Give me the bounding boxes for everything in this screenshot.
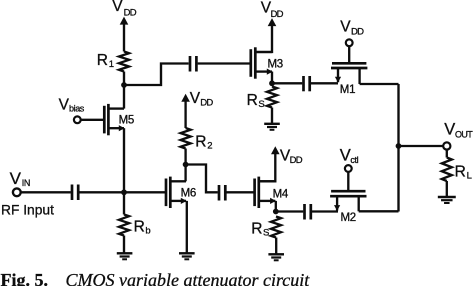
wire input node to M6 gate	[124, 191, 166, 193]
svg-text:V: V	[340, 18, 351, 35]
svg-text:DD: DD	[271, 9, 284, 20]
svg-text:R: R	[455, 164, 466, 181]
wire R2 to node D	[184, 149, 186, 165]
svg-text:M4: M4	[273, 188, 289, 200]
label Vbias	[59, 96, 85, 113]
resistor R1	[119, 52, 129, 72]
wire node B to capacitor C4	[272, 82, 302, 84]
svg-text:V: V	[190, 90, 201, 107]
wire node A to capacitor C2	[124, 64, 189, 86]
svg-text:M3: M3	[268, 58, 283, 70]
svg-text:R: R	[134, 218, 145, 235]
power VDD arrow (above M3)	[268, 18, 277, 26]
wire M5 gate to Vbias	[81, 119, 104, 121]
label R2	[195, 133, 212, 151]
wire M6 source to ground	[186, 201, 188, 253]
capacitor C1	[72, 185, 78, 201]
power VDD label (above M4)	[280, 148, 303, 167]
wire M5 drain to node A	[123, 85, 125, 109]
power VDD label (above M1)	[340, 18, 364, 37]
resistor RS (lower)	[271, 217, 281, 238]
svg-text:Fig. 5.: Fig. 5.	[1, 270, 49, 286]
svg-text:b: b	[145, 225, 150, 236]
svg-text:CMOS variable attenuator circu: CMOS variable attenuator circuit	[66, 270, 311, 286]
label RS (upper)	[247, 92, 265, 110]
ground (upper RS)	[264, 123, 280, 125]
svg-text:V: V	[59, 96, 70, 113]
transistor M3	[251, 47, 273, 78]
wire Rb to ground	[123, 236, 125, 254]
capacitor C2	[190, 56, 196, 72]
transistor M4	[255, 177, 276, 208]
input node junction	[121, 189, 127, 195]
wire input node to Rb	[123, 192, 125, 214]
wire R1 to node A	[123, 72, 125, 86]
svg-text:R: R	[97, 52, 108, 69]
ground (lower RS)	[268, 253, 284, 255]
svg-text:M5: M5	[119, 114, 134, 126]
transistor M6	[166, 177, 187, 208]
transistor M2	[330, 191, 366, 211]
resistor RS (upper)	[267, 87, 277, 108]
label R1	[97, 52, 114, 70]
wire output bus	[397, 84, 399, 212]
svg-text:R: R	[195, 133, 206, 150]
transistor M5	[104, 104, 124, 135]
capacitor C4	[304, 76, 310, 91]
ground (Rb)	[117, 252, 133, 254]
wire M3 drain to VDD	[255, 25, 272, 52]
ground (RL)	[438, 196, 456, 198]
wire RL to ground	[446, 181, 448, 197]
wire C4 to M1 source	[311, 82, 338, 84]
ground (M6)	[179, 252, 195, 254]
resistor RL	[442, 158, 452, 182]
capacitor C5	[305, 204, 311, 220]
wire C1 to input node	[79, 191, 124, 193]
wire C2 to M3 gate	[198, 62, 251, 64]
label VIN	[10, 169, 30, 188]
wire M4 drain to VDD	[259, 154, 276, 182]
transistor M1	[331, 63, 367, 84]
svg-text:V: V	[112, 0, 123, 15]
wire node D to capacitor C3	[186, 165, 218, 193]
label Vctl	[340, 147, 359, 165]
svg-text:M2: M2	[341, 212, 356, 224]
label Rb	[134, 218, 151, 236]
terminal VDD (M1)	[346, 39, 353, 46]
wire C3 to M4 gate	[227, 191, 255, 193]
svg-text:L: L	[467, 171, 472, 182]
svg-text:DD: DD	[200, 98, 213, 109]
svg-text:V: V	[444, 121, 455, 139]
svg-text:RF Input: RF Input	[1, 202, 54, 217]
power VDD arrow (above M4)	[271, 146, 280, 154]
svg-text:1: 1	[109, 59, 114, 70]
wire M5 source to input node	[123, 128, 125, 192]
svg-text:M1: M1	[340, 84, 355, 96]
resistor R2	[181, 128, 191, 149]
svg-text:S: S	[258, 99, 264, 110]
wire M4 source to node C	[275, 201, 277, 212]
power VDD label (above M3)	[261, 0, 284, 20]
svg-text:DD: DD	[290, 155, 303, 166]
wire lower RS to ground	[275, 238, 277, 255]
svg-text:S: S	[263, 227, 269, 238]
svg-text:M6: M6	[181, 187, 196, 199]
node B junction	[269, 80, 275, 86]
svg-text:DD: DD	[124, 7, 137, 18]
svg-text:DD: DD	[351, 26, 364, 37]
label RL	[455, 164, 472, 182]
label RS (lower)	[251, 220, 269, 238]
terminal VOUT	[443, 142, 450, 149]
node C junction	[273, 209, 279, 215]
power VDD label (above R2)	[190, 90, 214, 109]
wire VDD terminal to M1 gate	[348, 46, 350, 62]
wire R2 to VDD	[184, 101, 186, 128]
svg-text:R: R	[251, 220, 262, 237]
wire VIN to capacitor C1	[21, 191, 71, 193]
terminal VIN	[13, 188, 21, 196]
wire C5 to M2 source	[312, 210, 338, 212]
svg-text:V: V	[10, 169, 22, 188]
svg-text:IN: IN	[22, 178, 30, 188]
svg-text:V: V	[340, 147, 351, 165]
wire M1 drain to output bus	[360, 83, 399, 85]
svg-text:2: 2	[207, 140, 212, 151]
svg-text:OUT: OUT	[455, 130, 473, 140]
node D junction (R2/M6)	[183, 162, 189, 168]
wire node C to capacitor C5	[276, 210, 304, 212]
wire Vctl terminal to M2 gate	[347, 172, 349, 191]
power VDD arrow (above R1)	[120, 17, 129, 52]
svg-text:ctl: ctl	[350, 155, 358, 165]
wire RS to ground	[271, 108, 273, 125]
wire VOUT to RL	[446, 150, 448, 158]
svg-text:R: R	[247, 92, 258, 109]
wire bus to VOUT terminal	[399, 145, 444, 147]
wire M3 source to node B	[271, 72, 273, 84]
terminal Vctl	[345, 165, 352, 172]
capacitor C3	[219, 185, 225, 201]
label VOUT	[444, 121, 473, 140]
wire M6 drain to node D	[184, 165, 186, 182]
terminal Vbias	[74, 116, 81, 123]
resistor Rb	[119, 215, 129, 236]
svg-text:bias: bias	[69, 104, 85, 114]
power VDD arrow (above R2)	[181, 94, 190, 102]
wire M2 drain to output bus	[359, 210, 399, 212]
node VOUT junction	[396, 143, 402, 149]
power VDD label (above R1)	[112, 0, 136, 18]
node A junction	[121, 82, 127, 88]
